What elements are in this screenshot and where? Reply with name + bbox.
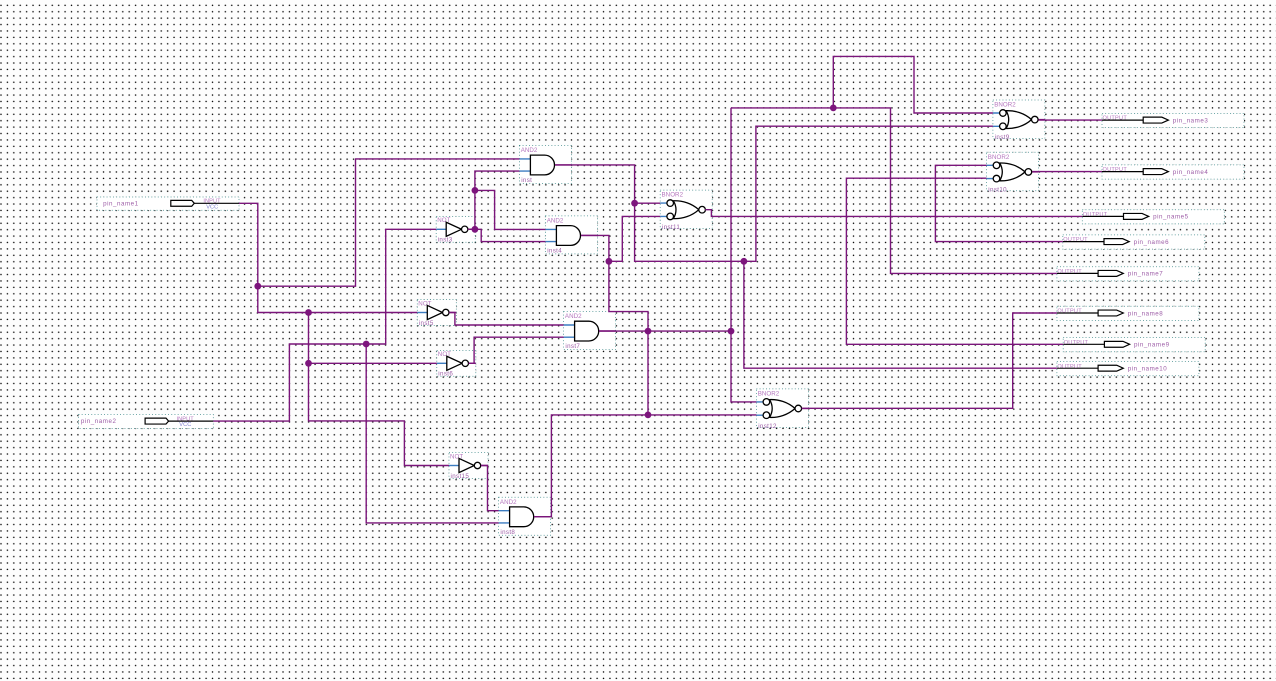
svg-text:AND2: AND2: [547, 218, 564, 225]
svg-text:inst12: inst12: [758, 423, 777, 430]
wire J10 to inst11 input2: [609, 216, 660, 261]
wire J8 down to inst9 input2: [635, 126, 993, 261]
wire inst10 input1 node to pin_name6: [935, 165, 1062, 241]
wire inst5 output to inst7 input1: [449, 313, 563, 326]
svg-text:pin_name7: pin_name7: [1128, 271, 1164, 278]
svg-text:BNOR2: BNOR2: [994, 102, 1016, 109]
wire pin_name1 to junction J1: [239, 203, 258, 286]
input pin pin_name1: [97, 197, 239, 210]
svg-text:OUTPUT: OUTPUT: [1083, 212, 1108, 218]
not-gate inst3 NOT: [436, 216, 475, 243]
nor-gate inst12 BNOR2: [756, 389, 808, 430]
output pin pin_name4: [1102, 165, 1244, 179]
junction J9: [741, 258, 748, 265]
wire pin_name2 to inst3 input: [213, 229, 436, 421]
svg-text:inst15: inst15: [451, 473, 470, 480]
nor-gate inst10 BNOR2: [987, 152, 1039, 193]
svg-text:pin_name3: pin_name3: [1173, 117, 1209, 124]
junction J5: [645, 412, 652, 419]
output pin pin_name6: [1063, 235, 1205, 249]
wire J6 to inst4 input2: [475, 229, 546, 241]
svg-text:OUTPUT: OUTPUT: [1063, 237, 1088, 243]
svg-text:AND2: AND2: [500, 499, 517, 506]
junction J8: [631, 200, 638, 207]
wire inst10 output to pin_name4: [1032, 171, 1102, 173]
svg-text:BNOR2: BNOR2: [662, 192, 684, 199]
svg-text:VCC: VCC: [179, 422, 191, 428]
wire inst15 output to inst8 input1: [481, 466, 499, 511]
wire J13 over top to inst9 input1: [833, 56, 993, 113]
not-gate inst5 NOT: [417, 300, 456, 327]
svg-text:OUTPUT: OUTPUT: [1057, 269, 1082, 275]
svg-text:inst8: inst8: [500, 529, 515, 536]
junction J10: [606, 258, 613, 265]
wire J11 to J5: [647, 331, 649, 415]
wire inst11 output to pin_name5: [705, 210, 1082, 217]
wire J4 to inst8 input2: [366, 344, 498, 523]
junction J13: [830, 105, 837, 112]
wire inst10 input2 node to pin_name9: [846, 178, 1063, 344]
wire inst8 output to inst12 input2: [534, 415, 756, 517]
output pin pin_name9: [1063, 338, 1205, 352]
wire J2 to inst6 input: [309, 313, 437, 364]
wire vertical through J12 to inst12 input1: [731, 108, 756, 402]
svg-text:pin_name5: pin_name5: [1153, 214, 1189, 221]
svg-text:inst4: inst4: [547, 248, 562, 255]
svg-text:OUTPUT: OUTPUT: [1057, 364, 1082, 370]
svg-text:pin_name9: pin_name9: [1134, 342, 1170, 349]
svg-text:VCC: VCC: [206, 204, 218, 210]
svg-text:inst10: inst10: [988, 186, 1007, 193]
junction J4: [363, 341, 370, 348]
input pin pin_name2: [79, 414, 214, 428]
svg-text:OUTPUT: OUTPUT: [1064, 340, 1089, 346]
junction J6: [472, 226, 479, 233]
svg-text:pin_name6: pin_name6: [1134, 239, 1170, 246]
svg-text:inst9: inst9: [995, 134, 1010, 141]
nor-gate inst11 BNOR2: [660, 190, 712, 231]
wire J9 down to pin_name10: [744, 261, 1057, 368]
svg-text:OUTPUT: OUTPUT: [1103, 167, 1128, 173]
svg-text:inst11: inst11: [662, 224, 680, 231]
output pin pin_name5: [1082, 210, 1224, 224]
output pin pin_name10: [1057, 362, 1199, 376]
svg-text:pin_name1: pin_name1: [103, 200, 139, 207]
wire J1 down to inst5 input: [258, 286, 418, 312]
wire inst6 output to inst7 input2: [469, 337, 564, 363]
wire inst output to inst11 input1: [555, 165, 660, 203]
wire inst7 output to junction J12: [599, 330, 731, 332]
svg-text:inst7: inst7: [565, 343, 580, 350]
svg-text:pin_name8: pin_name8: [1128, 310, 1164, 317]
junction J7: [472, 187, 479, 194]
svg-text:inst3: inst3: [438, 237, 453, 244]
wire J1 to inst input1: [258, 159, 520, 286]
not-gate inst6 NOT: [437, 350, 476, 377]
output pin pin_name3: [1102, 113, 1244, 127]
svg-text:pin_name4: pin_name4: [1173, 169, 1209, 176]
svg-text:pin_name2: pin_name2: [81, 418, 117, 425]
svg-text:inst: inst: [521, 177, 532, 184]
svg-text:BNOR2: BNOR2: [758, 391, 780, 398]
and-gate inst4 AND2: [545, 216, 597, 255]
wire J10 down to junction J11: [609, 261, 648, 331]
svg-text:inst6: inst6: [438, 371, 453, 378]
svg-text:OUTPUT: OUTPUT: [1057, 309, 1082, 315]
wire inst4 output to junction J10: [581, 235, 609, 261]
svg-text:inst5: inst5: [419, 320, 434, 327]
wire J7 to inst4 input1: [475, 190, 546, 229]
wire inst12 output to pin_name8: [802, 313, 1057, 408]
and-gate inst8 AND2: [499, 497, 551, 536]
svg-text:OUTPUT: OUTPUT: [1103, 116, 1128, 122]
wire J6 up to junction J7: [474, 190, 476, 229]
svg-text:AND2: AND2: [565, 313, 582, 320]
nor-gate inst9 BNOR2: [993, 100, 1045, 141]
wire inst9 output to pin_name3: [1039, 119, 1102, 121]
junction J3: [305, 360, 312, 367]
junction J12: [728, 328, 735, 335]
not-gate inst15 NOT: [449, 453, 488, 480]
svg-text:pin_name10: pin_name10: [1128, 366, 1168, 373]
junction J1: [254, 283, 261, 290]
output pin pin_name8: [1057, 306, 1199, 320]
and-gate inst7 AND2: [564, 312, 616, 351]
wire J7 to inst input2: [475, 171, 520, 190]
output pin pin_name7: [1057, 267, 1199, 281]
wire J3 to inst15 input: [309, 363, 450, 465]
wire inst3 output to junction J6: [468, 228, 475, 230]
and-gate inst AND2: [519, 145, 571, 184]
wire top node to pin_name7: [731, 108, 1057, 274]
svg-text:AND2: AND2: [521, 147, 538, 154]
svg-text:BNOR2: BNOR2: [988, 154, 1010, 161]
junction J2: [305, 309, 312, 316]
junction J11: [645, 328, 652, 335]
